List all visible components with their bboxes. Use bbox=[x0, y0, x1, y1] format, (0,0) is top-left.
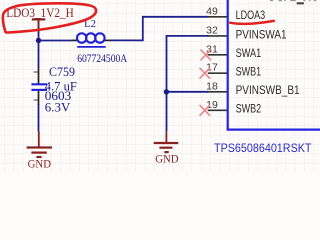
wire: L2 right pin to corner, up and right to pin 49 bbox=[111, 17, 209, 41]
svg-text:GND: GND bbox=[28, 156, 52, 170]
pin 32 bbox=[208, 35, 227, 37]
svg-text:LDO3_1V2_H: LDO3_1V2_H bbox=[6, 6, 74, 20]
pin 31 bbox=[208, 54, 227, 56]
annotation: red underline under LDOA3 bbox=[230, 21, 274, 24]
pin 19 bbox=[208, 109, 227, 111]
ground GND middle bbox=[154, 131, 179, 152]
svg-text:18: 18 bbox=[206, 80, 218, 92]
svg-text:32: 32 bbox=[206, 24, 218, 36]
annotation: red ellipse around LDO3_1V2_H bbox=[3, 3, 96, 32]
svg-text:TPS65086401RSKT: TPS65086401RSKT bbox=[214, 141, 312, 155]
svg-text:C759: C759 bbox=[49, 65, 75, 79]
wire: junction B to pin 18 bbox=[167, 91, 209, 93]
no-connect X pin 31 bbox=[201, 50, 212, 61]
wire: capacitor bottom to left GND bbox=[38, 104, 40, 132]
ground GND left bbox=[27, 132, 52, 157]
svg-text:SWB2: SWB2 bbox=[236, 104, 262, 116]
wire: junction to inductor L2 left pin bbox=[38, 40, 73, 42]
no-connect X pin 19 bbox=[200, 105, 211, 116]
IC bottom border bbox=[227, 129, 320, 131]
svg-text:PVINSWB_B1: PVINSWB_B1 bbox=[236, 85, 300, 97]
screen artifact marks top edge bbox=[270, 0, 316, 1]
svg-text:LDOA3: LDOA3 bbox=[236, 10, 266, 22]
power port LDO3_1V2_H bbox=[6, 6, 74, 31]
no-connect X pin 17 bbox=[200, 68, 211, 79]
pin 49 bbox=[208, 16, 227, 18]
svg-text:17: 17 bbox=[206, 62, 218, 74]
svg-text:GND: GND bbox=[155, 151, 179, 165]
junction dot B bbox=[164, 89, 169, 94]
svg-text:19: 19 bbox=[206, 99, 218, 111]
background with grid bbox=[0, 0, 320, 172]
svg-text:SWB1: SWB1 bbox=[236, 67, 262, 79]
pin 17 bbox=[208, 72, 227, 74]
wire: pin 32 left, down past junction B to middle GND bbox=[167, 36, 209, 131]
svg-text:SWA1: SWA1 bbox=[236, 48, 262, 60]
IC left border bbox=[227, 0, 229, 130]
svg-text:607724500A: 607724500A bbox=[77, 53, 128, 65]
junction dot A bbox=[36, 38, 41, 43]
capacitor C759 bbox=[31, 65, 77, 115]
svg-text:6.3V: 6.3V bbox=[45, 101, 71, 115]
IC U1 TPS65086401RSKT bbox=[200, 0, 320, 155]
wire: power port stem to junction to capacitor bbox=[38, 30, 40, 68]
inductor L2 bbox=[72, 18, 128, 65]
svg-text:49: 49 bbox=[206, 5, 218, 17]
screen artifact dark dash top right bbox=[297, 2, 304, 4]
pin 18 bbox=[208, 91, 227, 93]
svg-text:PVINSWA1: PVINSWA1 bbox=[236, 29, 287, 41]
